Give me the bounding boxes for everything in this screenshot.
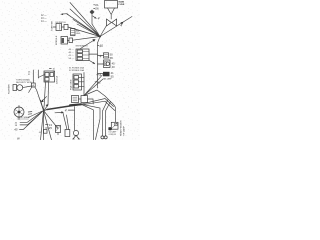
label 26 [94, 7, 99, 11]
label 10/15 pair [49, 69, 55, 74]
harness hub [23, 100, 58, 140]
wire stubs to bus [79, 77, 85, 86]
svg-text:4: 4 [65, 109, 67, 113]
svg-text:13 —: 13 — [41, 18, 47, 20]
wire branch to connector 50/58 [98, 55, 104, 57]
wire module to A [23, 86, 32, 88]
svg-text:TIP LAMP: TIP LAMP [122, 126, 125, 136]
caption turn signal module [16, 78, 32, 84]
wire [68, 40, 70, 42]
svg-text:40: 40 [112, 65, 115, 69]
wire fan to hub [67, 3, 101, 41]
svg-text:26: 26 [95, 7, 99, 11]
label 41 leader [95, 80, 101, 84]
wire bowtie to hub [100, 26, 107, 37]
connector box B1a [56, 24, 62, 31]
svg-text:14 —: 14 — [41, 21, 47, 23]
svg-text:IGN 15A: IGN 15A [55, 75, 58, 84]
connector box B1b [64, 25, 68, 30]
svg-text:GND: GND [76, 33, 81, 35]
svg-text:SECURITY MOD: SECURITY MOD [16, 82, 32, 84]
svg-text:FUSE: FUSE [119, 4, 125, 6]
label 4 [100, 54, 102, 58]
harness bundle [44, 104, 81, 110]
wire [62, 26, 65, 28]
wire drop mid [81, 104, 94, 140]
wire stub [57, 133, 59, 135]
svg-text:A: A [32, 83, 34, 87]
wire to rear fender lamp [84, 90, 116, 122]
svg-text:45: 45 [14, 128, 18, 132]
wire bus vertical [83, 73, 85, 96]
callout arrow 4 (right) [100, 17, 132, 37]
wire label column [69, 49, 75, 60]
rear fender tip lamp box [111, 122, 118, 129]
connector blob [108, 127, 112, 130]
svg-text:W: W [17, 136, 20, 140]
svg-text:STARTER: STARTER [51, 21, 54, 31]
caption under box [109, 131, 118, 136]
svg-text:4: 4 [120, 23, 122, 27]
wire leader dashes [15, 122, 27, 127]
svg-text:TAIL LAMP: TAIL LAMP [103, 77, 112, 80]
svg-text:50: 50 [110, 52, 113, 56]
svg-text:P&A CONN: P&A CONN [70, 79, 73, 90]
front wheel speedometer drive [14, 106, 24, 120]
fuse block [44, 71, 55, 82]
wire branch to dark connector [98, 73, 104, 75]
svg-text:CONN 93: CONN 93 [109, 134, 116, 136]
wire fan to tail connectors [84, 75, 103, 96]
wire stub horizontal [68, 109, 74, 111]
wire drop to horn [74, 107, 76, 131]
svg-text:MODULE: MODULE [56, 35, 58, 45]
main fuse box [105, 1, 118, 9]
caption wheel [17, 117, 30, 119]
svg-text:41 —: 41 — [69, 55, 75, 57]
connector pair bottom [72, 96, 88, 103]
wire fuse verticals [44, 82, 49, 111]
label 40 [98, 44, 104, 48]
wire rear bundle strands [81, 99, 115, 111]
wire [53, 26, 56, 28]
svg-text:46 —: 46 — [69, 49, 75, 51]
wire fusebox link [38, 70, 44, 78]
svg-text:4: 4 [100, 54, 102, 58]
svg-text:25: 25 [49, 126, 53, 130]
label fuses text [69, 66, 84, 72]
turn signal module [13, 85, 23, 91]
connector bowtie [107, 19, 117, 26]
svg-text:12 —: 12 — [41, 15, 47, 17]
svg-text:41: 41 [111, 71, 114, 75]
svg-text:REAR FENDER: REAR FENDER [120, 120, 123, 136]
label W [17, 136, 20, 140]
bulb R [104, 136, 107, 139]
label 40b [112, 65, 115, 69]
connector (filled) 41 [103, 71, 114, 80]
connector box left edge [71, 29, 81, 36]
label 4 mid [97, 73, 102, 77]
connector block 3-way [73, 74, 82, 90]
label MAIN [119, 1, 125, 6]
label 21 [94, 3, 99, 7]
wire [89, 53, 98, 55]
pointer arrow down-left [41, 97, 47, 103]
connector with lamp [104, 60, 111, 68]
wire label list 12-14 [41, 15, 47, 23]
label 58 [110, 56, 113, 60]
wire stub pair left [28, 112, 32, 115]
label pair above A [28, 71, 31, 76]
wire drop diag [81, 104, 100, 139]
svg-text:52 FUSES 10A: 52 FUSES 10A [69, 69, 84, 72]
svg-text:INSTRUMENTS: INSTRUMENTS [76, 45, 89, 47]
node A callout [31, 70, 35, 87]
node plus-terminal marker [61, 12, 69, 16]
pointer arrow to harness [81, 39, 96, 48]
connector box B2 [61, 37, 68, 45]
svg-text:FLASHER: FLASHER [7, 84, 10, 94]
connector grid J2 [76, 49, 89, 61]
callout arrow 4 (top) [93, 16, 100, 21]
pointer arrow small [90, 61, 95, 64]
svg-text:4: 4 [98, 17, 100, 21]
svg-text:40 —: 40 — [69, 52, 75, 54]
svg-text:58: 58 [110, 56, 113, 60]
wire drops to bulbs [103, 100, 111, 137]
bulb L [101, 136, 104, 139]
label 45 left [14, 128, 23, 132]
wire V-funnel [108, 8, 115, 19]
arrowhead on bundle [46, 104, 49, 107]
svg-text:45: 45 [112, 61, 115, 65]
svg-text:51 FUSES 15A: 51 FUSES 15A [69, 66, 84, 69]
wire links [79, 99, 94, 104]
svg-text:40: 40 [99, 44, 103, 48]
ignition switch symbol with terminals 21 26 [90, 10, 101, 37]
connector 50/58 [104, 53, 109, 58]
callout arrow 4 bottom [55, 109, 67, 114]
svg-text:+: + [67, 12, 69, 16]
label 13 [46, 123, 53, 127]
label 45 [112, 61, 115, 65]
connector small w/label [39, 130, 47, 134]
wire junction knot [97, 34, 101, 37]
horn [73, 130, 81, 139]
svg-text:54 —: 54 — [69, 58, 75, 60]
connector R [63, 113, 70, 137]
main harness vertical wire [98, 37, 101, 89]
label 25 [46, 126, 53, 130]
wire A to hub [29, 87, 44, 111]
connector hatched [56, 126, 61, 133]
wire branch to lamp connector [98, 63, 104, 65]
label rear fender vertical [120, 120, 126, 136]
connector box B2b [69, 38, 73, 43]
label 50 [110, 52, 113, 56]
